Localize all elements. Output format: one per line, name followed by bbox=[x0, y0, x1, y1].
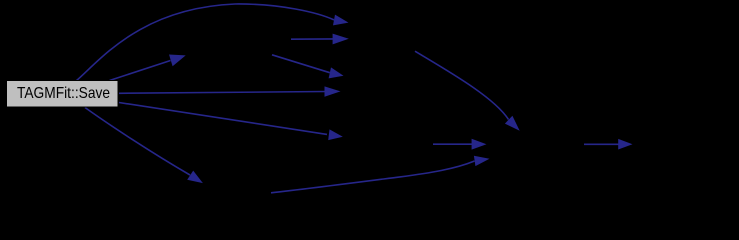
edge: TAGMFit::Save -> bottom hidden node bbox=[85, 108, 190, 176]
arrowhead A5 bbox=[325, 86, 341, 96]
edge: TAGMFit::Save -> hidden node (down-right to y136) bbox=[119, 103, 327, 135]
arrowhead A9 bbox=[505, 116, 520, 131]
arrowhead A6 bbox=[328, 129, 343, 140]
edge: TAGMFit::Save -> mid hidden node (up-right) bbox=[110, 61, 171, 81]
arrowhead A10 bbox=[472, 139, 487, 150]
arrowhead A1 bbox=[333, 15, 349, 26]
edge: top column-3 hidden node -> column-3 lower hidden node (curve) bbox=[415, 51, 509, 119]
arrowhead A8 bbox=[474, 156, 490, 166]
arrowhead A11 bbox=[618, 139, 632, 150]
edge: TAGMFit::Save -> hidden node (long horizontal y92) bbox=[119, 92, 326, 94]
edge: bottom hidden node -> column-3 hidden node (long bottom curve) bbox=[271, 161, 475, 193]
arrowhead A2 bbox=[169, 55, 186, 67]
arrowhead A7 bbox=[187, 171, 203, 184]
arrowhead A4 bbox=[333, 34, 349, 45]
edge: TAGMFit::Save -> top hidden node (long top curve) bbox=[76, 4, 334, 81]
edge: column-3 hidden node -> column-4 hidden node (horizontal y144) bbox=[584, 143, 619, 145]
node box: TAGMFit::Save bbox=[7, 81, 119, 108]
edge: mid hidden node -> hidden node (down-right short) bbox=[272, 55, 330, 73]
edge: mid hidden node -> column-3 hidden node (horizontal y144) bbox=[433, 143, 472, 145]
arrowhead A3 bbox=[329, 67, 344, 78]
svg-text:TAGMFit::Save: TAGMFit::Save bbox=[17, 85, 110, 102]
edge: hidden node -> hidden node (short horizontal y39) bbox=[291, 38, 334, 40]
